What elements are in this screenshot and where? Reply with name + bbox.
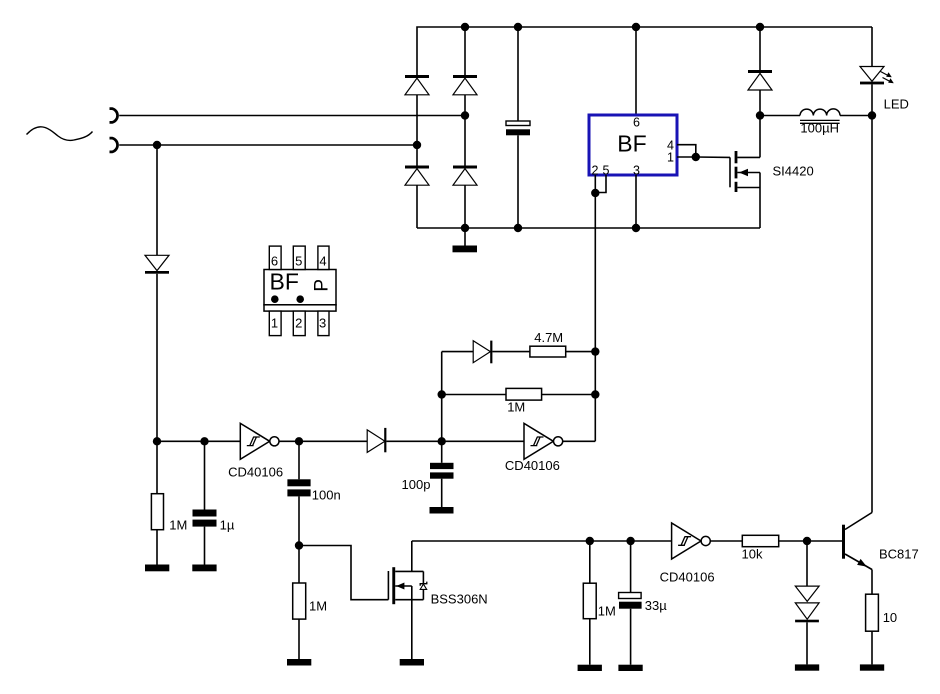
svg-text:100p: 100p: [402, 477, 431, 492]
wire inverter U2B out to pin2/5 net: [563, 440, 596, 442]
wire 100n node to BSS306N gate: [299, 546, 388, 600]
ground under C4: [430, 507, 454, 514]
transistor Q1 SI4420 MOSFET: [730, 116, 760, 229]
svg-text:1: 1: [667, 151, 674, 165]
svg-text:CD40106: CD40106: [228, 464, 283, 479]
package pin 6 lead: [269, 246, 281, 269]
svg-text:5: 5: [295, 254, 302, 269]
svg-text:4: 4: [319, 254, 326, 269]
wire BF pin 6 to top rail: [635, 27, 637, 115]
package pin 1 lead: [269, 311, 281, 336]
transistor Q2 BSS306N MOSFET: [388, 541, 426, 659]
wire Q2 drain node (y=541): [412, 540, 672, 542]
connector pin lower: [110, 138, 118, 152]
package drawing BF SOT-23-6 top view: [264, 246, 336, 336]
ground under C5: [618, 665, 642, 671]
junction bottom rail ground: [461, 224, 469, 232]
inductor L1 100µH: [760, 109, 872, 123]
junction bottom rail pin3: [632, 224, 640, 232]
package pin 4 lead: [318, 246, 329, 269]
diode D10 (clamp, lower): [795, 603, 819, 665]
package pin 5 lead: [293, 246, 305, 269]
junction U1 pin2/pin5: [591, 189, 599, 197]
wire bottom rail of bridge: [417, 227, 760, 229]
svg-text:1µ: 1µ: [220, 518, 235, 533]
svg-text:100µH: 100µH: [800, 120, 839, 135]
wire U1 pin1/4 to gate SI4420: [696, 156, 730, 158]
diode D2 upper-right of bridge: [453, 75, 477, 116]
wire AC line 2: [119, 144, 417, 146]
svg-text:33µ: 33µ: [645, 598, 667, 613]
svg-text:4.7M: 4.7M: [534, 330, 563, 345]
svg-text:BC817: BC817: [879, 547, 919, 562]
package pin 3 lead: [318, 311, 329, 336]
capacitor C3 100n: [287, 441, 310, 545]
AC source sine symbol: [27, 127, 93, 141]
transistor Q3 BC817: [842, 513, 872, 595]
oscillator wire (node A) y=441: [157, 440, 240, 442]
svg-text:2: 2: [295, 316, 302, 331]
svg-text:3: 3: [633, 163, 640, 177]
package orientation dot 1: [271, 295, 279, 303]
diode D6 left column (x=157): [145, 145, 169, 441]
wire U2C out to R6: [710, 540, 742, 542]
svg-text:10k: 10k: [742, 547, 763, 562]
resistor R7 10: [866, 594, 879, 664]
svg-text:BSS306N: BSS306N: [431, 592, 488, 607]
svg-text:CD40106: CD40106: [505, 458, 560, 473]
diode D4 lower-right of bridge: [453, 116, 477, 229]
svg-text:BF: BF: [617, 130, 646, 156]
wire feedback left vertical: [441, 352, 443, 442]
ground at bridge bottom: [453, 228, 478, 252]
wire top rail: [417, 27, 872, 75]
capacitor C4 100p: [430, 441, 454, 507]
junction D5 / inductor: [756, 111, 764, 119]
LED: [860, 27, 894, 513]
connector pin upper: [110, 109, 118, 123]
package pin 2 lead: [293, 311, 305, 336]
wire feedback top branch: [442, 351, 474, 353]
svg-text:6: 6: [633, 116, 640, 130]
wire AC line 1: [119, 115, 465, 117]
svg-text:CD40106: CD40106: [660, 570, 715, 585]
svg-text:100n: 100n: [312, 487, 341, 502]
svg-text:1M: 1M: [598, 603, 616, 618]
ground under C2: [192, 565, 216, 572]
diode D1 upper-left of bridge: [405, 75, 429, 145]
svg-text:2: 2: [592, 163, 599, 177]
junction AC line1 / bridge: [461, 111, 469, 119]
wire U1 pin 2: [594, 175, 596, 193]
capacitor bulk (electrolytic, unlabeled): [506, 27, 530, 228]
ground under R3: [145, 565, 169, 572]
junction 100n bottom node: [295, 541, 303, 549]
wire U1 pin 4: [677, 145, 696, 157]
svg-text:1M: 1M: [507, 399, 525, 414]
IC U1 BF (blue box): [589, 115, 677, 175]
junction osc node x=299: [295, 437, 303, 445]
capacitor C2 1µ: [193, 441, 217, 564]
junction osc node x=204.5: [200, 437, 208, 445]
junction bottom rail cap: [514, 224, 522, 232]
resistor R3 1M (left): [151, 441, 163, 564]
junction 1M fb right: [591, 390, 599, 398]
capacitor C5 33µ electrolytic: [619, 541, 642, 665]
junction top rail x=518: [514, 23, 522, 31]
wire U1 pin 3 to bottom rail: [635, 175, 637, 228]
svg-text:P: P: [312, 279, 333, 292]
junction AC line2 / left column: [153, 141, 161, 149]
resistor R5 1M (timing): [583, 541, 596, 665]
diode D3 lower-left of bridge: [405, 145, 429, 228]
junction U1 pin1/pin4: [692, 153, 700, 161]
wire inverter U2B input: [442, 440, 524, 442]
resistor R4 1M (gate pulldown): [293, 546, 306, 660]
ground under D10: [795, 664, 819, 670]
inverter U2C CD40106: [672, 523, 711, 559]
junction drain node x=589.8: [586, 537, 594, 545]
svg-text:1: 1: [271, 316, 278, 331]
inverter U2B CD40106: [524, 423, 563, 459]
junction AC line2 / bridge: [413, 141, 421, 149]
svg-text:SI4420: SI4420: [773, 164, 814, 179]
wire inverter U2A out to diode D7: [279, 440, 367, 442]
resistor R2 1M feedback: [442, 388, 596, 400]
svg-text:5: 5: [603, 163, 610, 177]
junction LED / inductor: [868, 111, 876, 119]
inverter U2A CD40106: [240, 423, 279, 459]
diode D8 (with 4.7M): [473, 341, 530, 364]
junction drain node x=630.6: [626, 537, 634, 545]
diode D9 (clamp, upper): [795, 541, 819, 601]
ground under R5: [578, 665, 602, 671]
junction top rail x=465: [461, 23, 469, 31]
junction 1M fb left: [438, 390, 446, 398]
junction top rail x=636: [632, 23, 640, 31]
wire bridge right branch top: [464, 27, 466, 75]
wire U1 pin 5: [595, 175, 606, 193]
wire U1 pin 1: [677, 156, 696, 158]
wire base of Q3: [807, 540, 842, 542]
svg-text:3: 3: [319, 316, 326, 331]
package orientation dot 2: [296, 295, 304, 303]
svg-text:1M: 1M: [309, 599, 327, 614]
wire net pin2/5 down to oscillator output: [594, 193, 596, 441]
svg-text:6: 6: [271, 254, 278, 269]
ground under R7: [860, 664, 884, 670]
ground under R4: [287, 659, 311, 666]
junction 100p node: [438, 437, 446, 445]
resistor R6 10k: [742, 535, 807, 546]
junction 4.7M right: [591, 347, 599, 355]
resistor R1 4.7M: [530, 346, 595, 357]
diode D5 freewheel: [748, 27, 772, 116]
junction top rail x=760: [756, 23, 764, 31]
svg-text:BF: BF: [270, 269, 299, 295]
body diode of Q2: [422, 571, 424, 583]
ground under Q2 source: [400, 659, 424, 666]
svg-text:LED: LED: [884, 97, 909, 112]
junction osc node x=157: [153, 437, 161, 445]
junction base node x=807: [803, 537, 811, 545]
svg-text:10: 10: [883, 610, 897, 625]
diode D7 (to 100p node): [367, 428, 442, 453]
svg-text:1M: 1M: [169, 518, 187, 533]
